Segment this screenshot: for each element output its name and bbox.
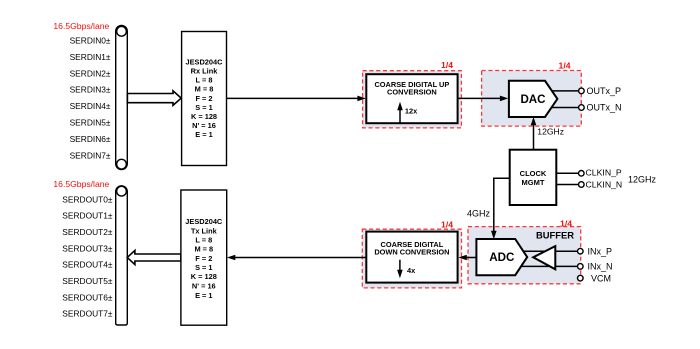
dashed quad region (DAC) — [482, 71, 582, 127]
svg-text:SERDOUT7±: SERDOUT7± — [62, 309, 113, 319]
svg-text:12GHz: 12GHz — [628, 174, 657, 184]
pin circle CLKIN_N — [579, 182, 585, 188]
svg-text:SERDOUT4±: SERDOUT4± — [62, 260, 113, 270]
svg-text:OUTx_P: OUTx_P — [587, 86, 622, 96]
decimation arrow 4x — [397, 260, 416, 279]
svg-text:1/4: 1/4 — [441, 60, 453, 70]
wire clock to DAC (12GHz) — [531, 117, 537, 150]
svg-text:1/4: 1/4 — [559, 60, 571, 70]
svg-text:16.5Gbps/lane: 16.5Gbps/lane — [53, 179, 109, 189]
block JESD204C Rx Link — [182, 32, 227, 166]
svg-text:1/4: 1/4 — [560, 219, 572, 229]
svg-text:4x: 4x — [407, 266, 416, 275]
svg-text:DOWN CONVERSION: DOWN CONVERSION — [374, 247, 449, 256]
interpolation arrow 12x — [397, 102, 418, 123]
pin circle INx_N — [578, 264, 584, 270]
svg-text:Rx Link: Rx Link — [191, 67, 219, 76]
svg-text:F = 2: F = 2 — [195, 94, 212, 103]
pin circle OUTx_N — [579, 105, 585, 111]
svg-text:E = 1: E = 1 — [195, 291, 212, 300]
svg-text:K = 128: K = 128 — [191, 112, 217, 121]
svg-text:JESD204C: JESD204C — [186, 57, 224, 66]
svg-text:12x: 12x — [405, 107, 418, 116]
pin circle INx_P — [578, 248, 584, 254]
svg-text:DAC: DAC — [520, 93, 546, 106]
svg-text:L = 8: L = 8 — [195, 236, 212, 245]
svg-text:VCM: VCM — [591, 273, 611, 283]
svg-text:1/4: 1/4 — [441, 219, 453, 229]
svg-text:SERDIN7±: SERDIN7± — [70, 150, 111, 160]
block COARSE DIGITAL UP CONVERSION — [366, 74, 457, 123]
svg-text:CLOCK: CLOCK — [520, 169, 547, 178]
svg-text:SERDOUT5±: SERDOUT5± — [62, 276, 113, 286]
svg-text:SERDOUT2±: SERDOUT2± — [62, 227, 113, 237]
block arrow into Rx link — [127, 91, 181, 106]
svg-text:S = 1: S = 1 — [195, 263, 212, 272]
wire up conversion to DAC — [458, 96, 509, 102]
svg-text:N' = 16: N' = 16 — [192, 121, 216, 130]
block COARSE DIGITAL DOWN CONVERSION — [366, 232, 457, 283]
svg-text:INx_P: INx_P — [588, 246, 613, 256]
svg-text:F = 2: F = 2 — [195, 254, 212, 263]
dashed quad region (ADC + buffer) — [468, 227, 581, 284]
svg-text:S = 1: S = 1 — [195, 103, 212, 112]
svg-text:BUFFER: BUFFER — [536, 229, 574, 240]
svg-text:SERDOUT1±: SERDOUT1± — [62, 211, 113, 221]
svg-text:4GHz: 4GHz — [467, 209, 491, 219]
buffer amplifier triangle — [533, 246, 555, 269]
svg-text:M = 8: M = 8 — [195, 85, 214, 94]
svg-text:SERDIN2±: SERDIN2± — [70, 68, 111, 78]
svg-text:Tx Link: Tx Link — [191, 226, 218, 235]
dashed quad region (up converter) — [363, 71, 462, 128]
pin circle VCM — [578, 275, 584, 281]
svg-text:INx_N: INx_N — [588, 262, 613, 272]
wire Rx Link to coarse digital up conversion — [227, 96, 366, 102]
svg-text:CLKIN_P: CLKIN_P — [586, 167, 622, 177]
svg-text:SERDIN4±: SERDIN4± — [70, 101, 111, 111]
block arrow out of Tx link — [127, 250, 181, 264]
svg-text:JESD204C: JESD204C — [185, 217, 223, 226]
svg-text:MGMT: MGMT — [522, 178, 545, 187]
pin circle OUTx_P — [579, 88, 585, 94]
pin circle CLKIN_P — [579, 171, 585, 177]
svg-text:SERDOUT6±: SERDOUT6± — [62, 292, 113, 302]
svg-text:SERDIN5±: SERDIN5± — [70, 118, 111, 128]
dashed quad region (down converter) — [362, 229, 461, 288]
block CLOCK MGMT — [510, 150, 557, 205]
svg-text:CLKIN_N: CLKIN_N — [586, 180, 623, 190]
svg-text:SERDIN6±: SERDIN6± — [70, 134, 111, 144]
SERDIN bus capsule — [116, 25, 128, 169]
wire CLKIN_N — [556, 184, 579, 186]
svg-text:OUTx_N: OUTx_N — [587, 103, 622, 113]
svg-text:ADC: ADC — [489, 251, 515, 264]
svg-text:N' = 16: N' = 16 — [192, 282, 216, 291]
wire ADC to down conversion — [458, 255, 476, 261]
DAC block — [509, 81, 558, 117]
svg-text:SERDIN3±: SERDIN3± — [70, 85, 111, 95]
wire ADC input P — [523, 250, 578, 252]
svg-text:SERDOUT0±: SERDOUT0± — [62, 194, 113, 204]
svg-text:SERDIN0±: SERDIN0± — [70, 36, 111, 46]
svg-text:K = 128: K = 128 — [191, 272, 217, 281]
wire ADC input N — [521, 265, 578, 267]
block JESD204C Tx Link — [181, 190, 227, 325]
svg-text:CONVERSION: CONVERSION — [387, 87, 437, 96]
svg-text:SERDIN1±: SERDIN1± — [70, 52, 111, 62]
wire DAC output N — [551, 107, 579, 109]
wire DAC output P — [551, 90, 579, 92]
svg-text:12GHz: 12GHz — [537, 127, 564, 137]
SERDOUT bus capsule — [116, 186, 128, 325]
wire down conversion to Tx link — [227, 255, 366, 261]
wire CLKIN_P — [556, 172, 579, 174]
svg-text:16.5Gbps/lane: 16.5Gbps/lane — [53, 21, 109, 31]
ADC block — [476, 239, 527, 275]
svg-text:SERDOUT3±: SERDOUT3± — [62, 243, 113, 253]
svg-text:M = 8: M = 8 — [194, 245, 213, 254]
svg-text:L = 8: L = 8 — [196, 76, 213, 85]
wire clock to ADC (4GHz) — [491, 178, 510, 239]
svg-text:E = 1: E = 1 — [195, 130, 212, 139]
